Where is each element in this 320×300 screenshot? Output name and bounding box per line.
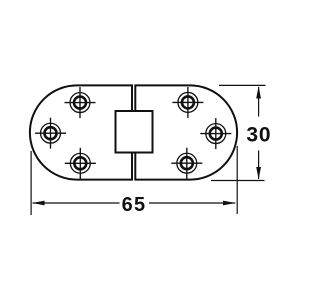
dim 65: left extension line <box>30 151 32 215</box>
svg-text:65: 65 <box>122 194 147 216</box>
dim 65: dimension line left segment <box>33 202 120 204</box>
dim 30: top extension line <box>219 84 266 86</box>
dim 65: left arrow <box>32 201 44 206</box>
dim 30: bottom arrow <box>256 167 261 179</box>
knuckle square <box>116 111 153 153</box>
hinge right leaf <box>135 85 237 179</box>
hole F (right leaf bottom) <box>171 148 202 179</box>
hole E (right leaf middle) <box>200 118 231 149</box>
dim 30: dimension line bottom segment <box>258 151 260 180</box>
hole C (left leaf bottom) <box>65 148 96 179</box>
hole A (left leaf top) <box>65 87 96 118</box>
svg-text:30: 30 <box>246 124 271 147</box>
hole D (right leaf top) <box>172 87 203 118</box>
dim 30: top arrow <box>256 86 261 98</box>
dim 65: dimension line right segment <box>149 202 235 204</box>
dim 65: right arrow <box>223 201 236 206</box>
hinge left leaf <box>30 85 132 179</box>
hole B (left leaf middle) <box>35 118 66 149</box>
dim 30: dimension line top segment <box>258 87 260 117</box>
dim 30: bottom extension line <box>211 180 265 182</box>
dim 65: right extension line <box>236 146 238 214</box>
